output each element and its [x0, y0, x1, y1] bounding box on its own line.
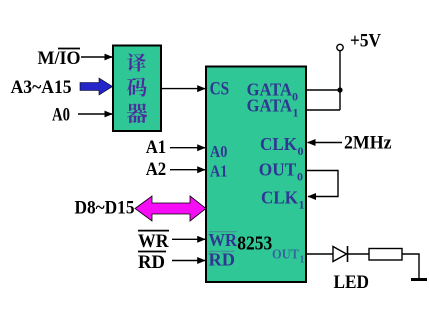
overline over RD [138, 251, 166, 253]
wire OUT1 to diode [306, 253, 333, 255]
svg-text:WR: WR [138, 231, 169, 252]
chip U1 8253 body [206, 67, 306, 283]
svg-text:OUT: OUT [272, 248, 300, 263]
svg-text:M/IO: M/IO [38, 48, 81, 69]
svg-text:0: 0 [292, 90, 298, 104]
wire GATA1 to rail [306, 109, 340, 111]
wire decoder to CS [161, 88, 205, 90]
pin label OUT0 [259, 160, 303, 184]
svg-text:CLK: CLK [261, 188, 298, 208]
ground [411, 278, 427, 281]
svg-text:1: 1 [299, 198, 305, 212]
svg-text:LED: LED [334, 272, 370, 293]
svg-text:0: 0 [297, 170, 303, 184]
pin label RD with overline [209, 250, 236, 270]
pin label GATA0 [247, 80, 298, 104]
wire +5V vertical rail [339, 51, 341, 110]
wire M/IO to decoder [81, 56, 112, 58]
svg-text:A1: A1 [146, 137, 167, 158]
svg-text:D8~D15: D8~D15 [75, 198, 135, 219]
svg-text:2MHz: 2MHz [344, 133, 392, 154]
wire OUT0 feedback to CLK1 [306, 171, 338, 197]
pin label GATA1 [247, 96, 299, 120]
svg-text:OUT: OUT [259, 160, 297, 180]
svg-text:CLK: CLK [260, 134, 297, 154]
pin label CLK0 [260, 134, 304, 158]
svg-text:A0: A0 [52, 105, 70, 126]
wire A2 to chip [170, 169, 205, 171]
decoder char 译 [127, 53, 146, 71]
svg-text:A2: A2 [146, 159, 167, 180]
svg-text:RD: RD [138, 252, 165, 273]
svg-text:WR: WR [209, 230, 238, 250]
wire WR to chip [172, 238, 205, 240]
decoder char 器 [127, 103, 147, 123]
wire A0 to decoder [78, 113, 112, 115]
svg-text:0: 0 [298, 144, 304, 158]
bus arrow D8~D15 [135, 196, 206, 221]
svg-text:A0: A0 [210, 142, 228, 161]
svg-text:+5V: +5V [350, 31, 381, 52]
wire A1 to chip [170, 147, 205, 149]
svg-text:8253: 8253 [237, 233, 272, 255]
svg-text:CS: CS [210, 79, 230, 100]
wire GATA0 to rail [306, 89, 340, 91]
wire resistor to ground [402, 254, 419, 279]
svg-text:1: 1 [293, 106, 299, 120]
wire diode to resistor [348, 253, 370, 255]
overline over IO [58, 48, 80, 50]
diode D1 (LED) [333, 247, 347, 262]
overline over WR [138, 230, 169, 232]
svg-text:A1: A1 [210, 162, 228, 181]
pin label CLK1 [261, 188, 305, 212]
svg-text:1: 1 [300, 255, 305, 266]
svg-text:RD: RD [209, 250, 236, 270]
+5V terminal circle [337, 44, 343, 50]
decoder box [113, 46, 161, 132]
diode cathode bar [347, 246, 349, 262]
svg-text:A3~A15: A3~A15 [11, 77, 72, 98]
wire RD to chip [172, 260, 205, 262]
bus arrow A3~A15 [80, 78, 113, 95]
pin label WR with overline [209, 230, 238, 250]
decoder char 码 [127, 77, 147, 96]
resistor R1 [369, 249, 402, 261]
svg-text:GATA: GATA [247, 96, 292, 116]
junction dot [337, 87, 342, 92]
wire 2MHz to CLK0 [308, 142, 343, 144]
pin label OUT1 [272, 248, 305, 266]
